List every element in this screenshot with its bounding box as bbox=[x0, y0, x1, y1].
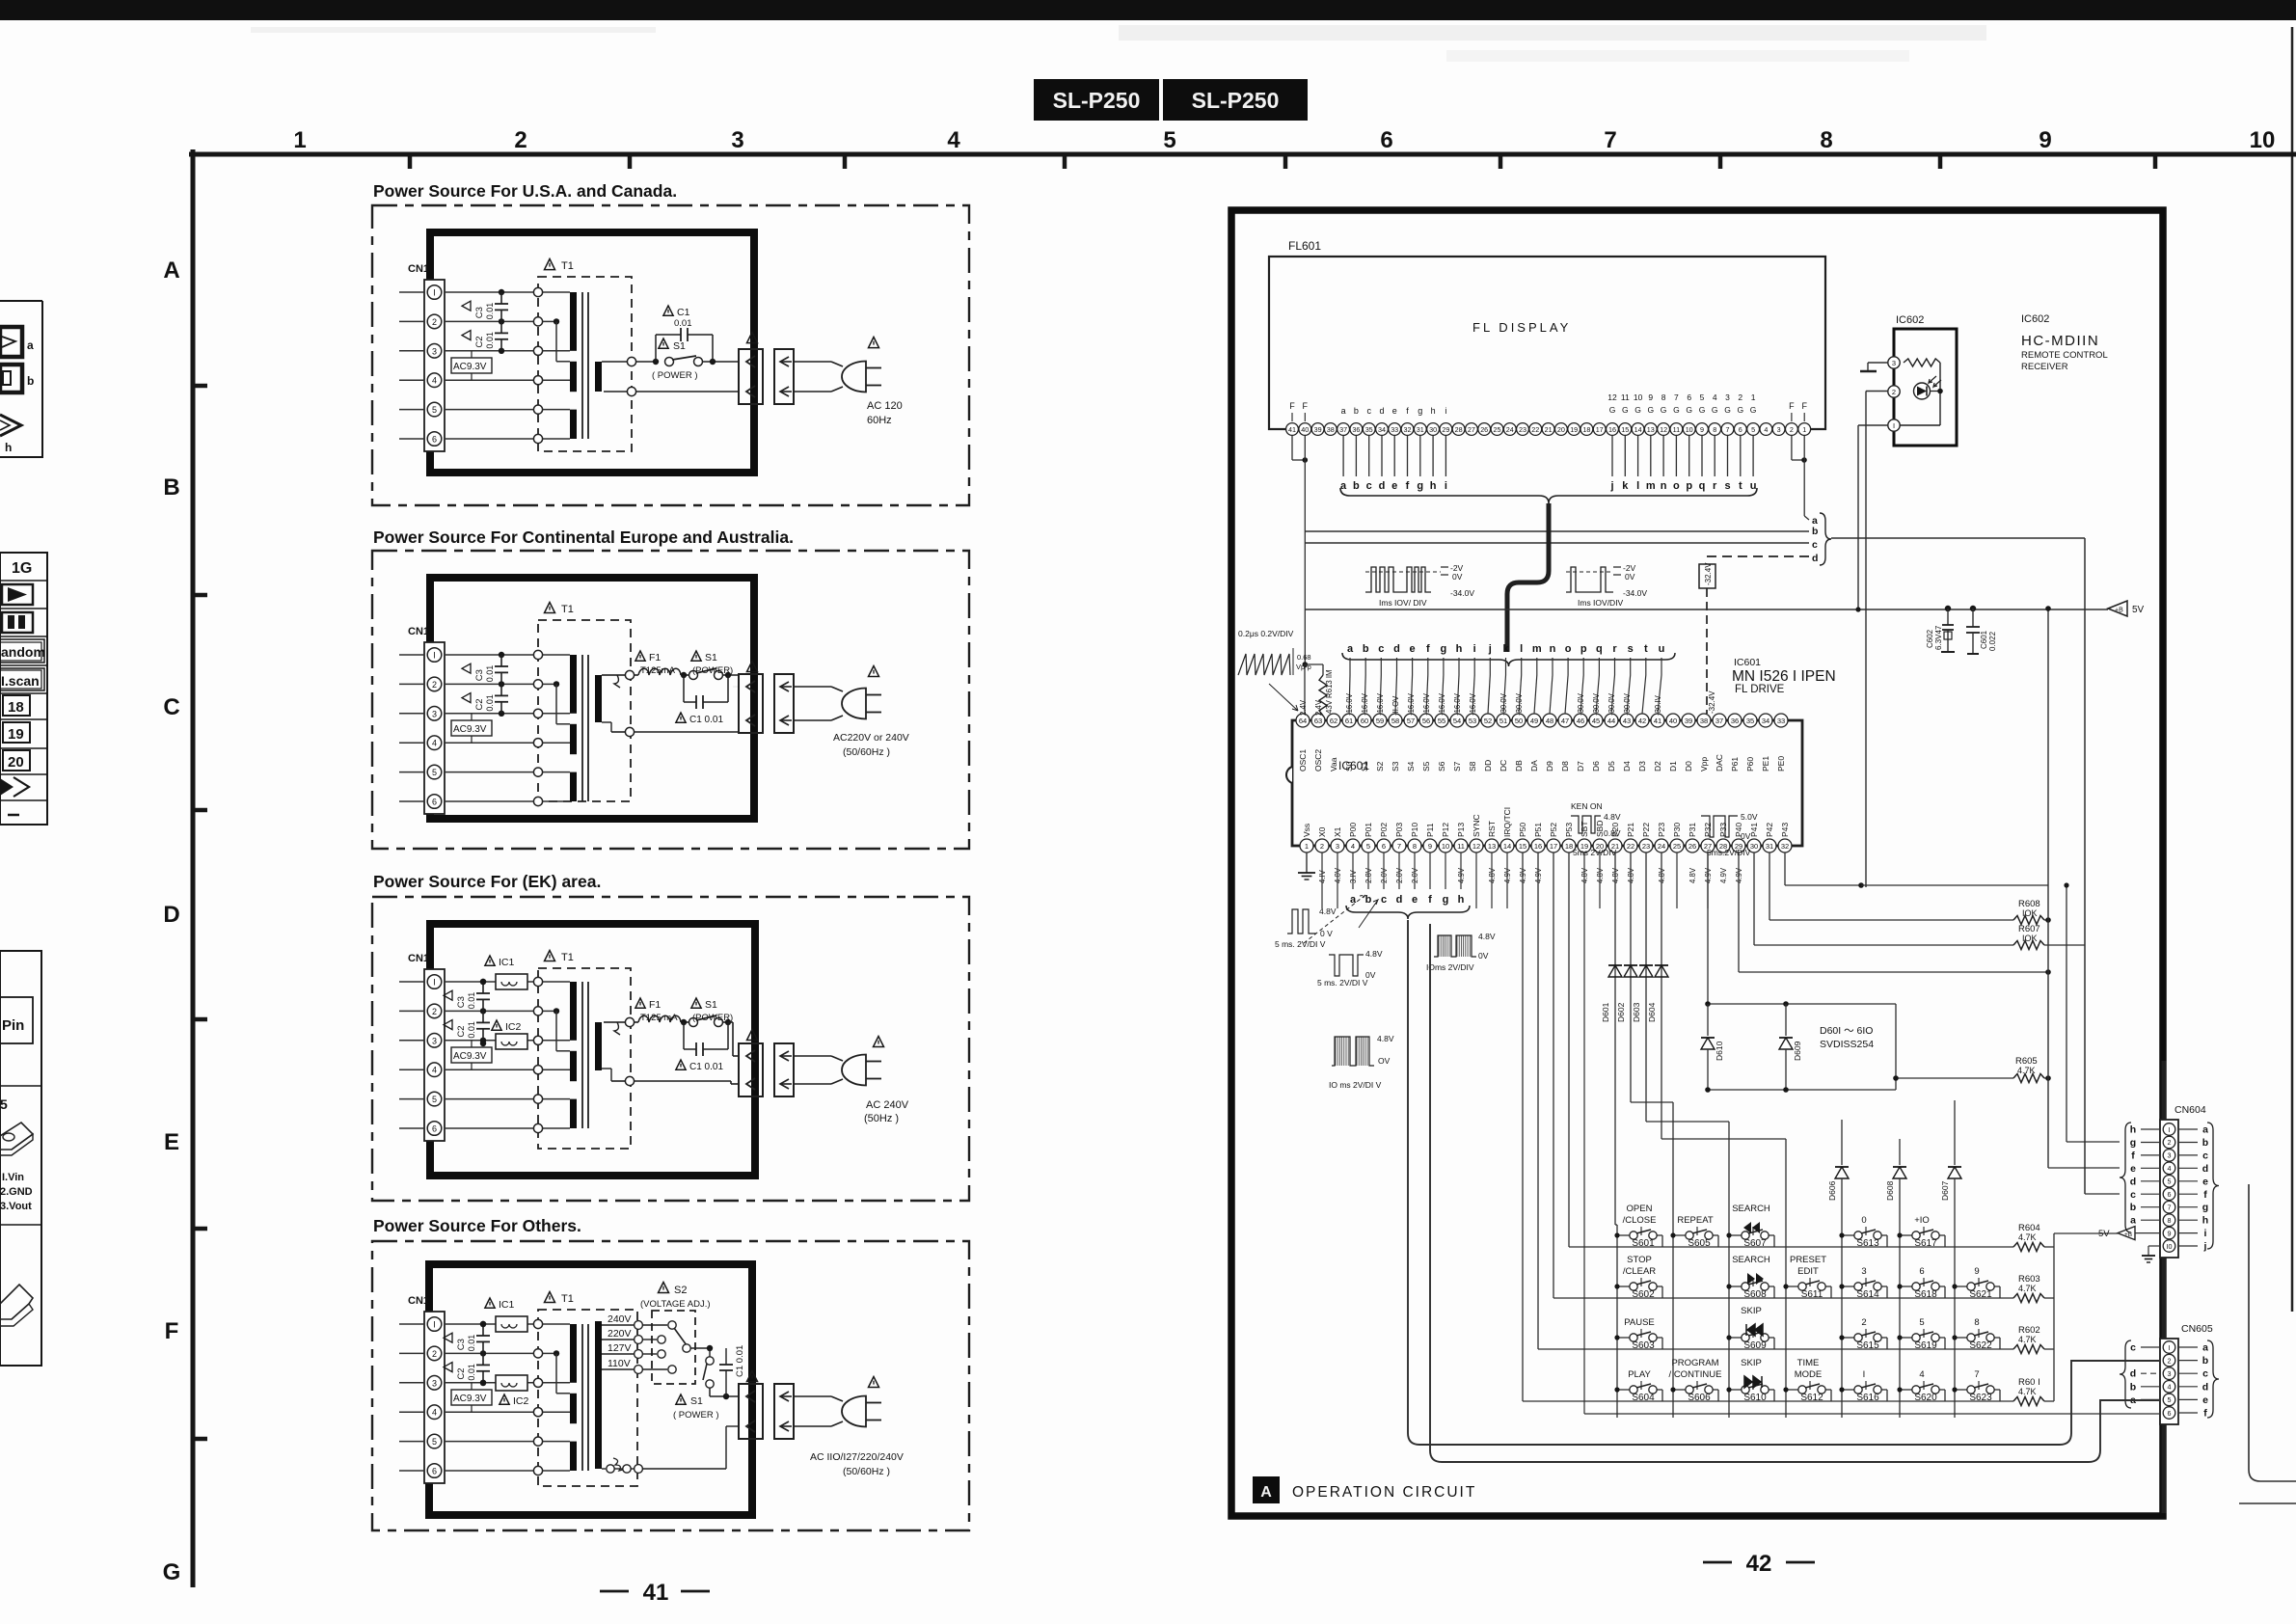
svg-text:S604: S604 bbox=[1632, 1393, 1655, 1403]
svg-text:4: 4 bbox=[1351, 842, 1355, 851]
svg-text:P11: P11 bbox=[1425, 823, 1435, 837]
power switch S1 (usa) bbox=[653, 359, 659, 365]
waveform hatched 10ms a bbox=[1426, 932, 1496, 972]
IC602 pin 3 bbox=[1888, 357, 1900, 368]
svg-text:Power Source For Continental E: Power Source For Continental Europe and … bbox=[373, 528, 794, 547]
svg-text:32: 32 bbox=[1404, 425, 1412, 434]
svg-text:S4: S4 bbox=[1406, 761, 1416, 771]
T1 label (eu) bbox=[545, 603, 555, 613]
svg-text:I: I bbox=[433, 1320, 436, 1330]
CN605 right brace bbox=[2207, 1340, 2219, 1418]
resistor R601 bbox=[2013, 1397, 2044, 1406]
svg-text:41: 41 bbox=[643, 1580, 669, 1606]
svg-text:13: 13 bbox=[1647, 425, 1655, 434]
svg-text:h: h bbox=[1456, 643, 1463, 655]
svg-text:54: 54 bbox=[1453, 717, 1461, 725]
diode D602 bbox=[1630, 853, 1632, 1102]
svg-text:4.8V: 4.8V bbox=[1377, 1034, 1394, 1043]
svg-text:Power Source For Others.: Power Source For Others. bbox=[373, 1216, 581, 1235]
waveform drive 1ms (2) bbox=[1566, 563, 1647, 608]
svg-text:e: e bbox=[1392, 406, 1397, 416]
svg-text:0.01: 0.01 bbox=[485, 694, 495, 712]
svg-text:b: b bbox=[2130, 1381, 2136, 1393]
svg-text:10: 10 bbox=[2250, 127, 2276, 153]
svg-text:0.01: 0.01 bbox=[485, 332, 495, 349]
svg-text:D602: D602 bbox=[1616, 1002, 1626, 1022]
capacitor C602 bbox=[1945, 606, 1951, 611]
secondary wires (ek) bbox=[604, 1021, 617, 1023]
svg-text:KEN ON: KEN ON bbox=[1571, 801, 1603, 811]
wire P32 to diode loop bbox=[1707, 853, 1709, 1004]
svg-text:4.8V: 4.8V bbox=[1365, 949, 1383, 959]
wires CN1 to T1 (ek) bbox=[445, 982, 533, 1128]
svg-text:46: 46 bbox=[1577, 717, 1584, 725]
IC602 resistor bbox=[1904, 359, 1940, 366]
svg-text:4.8V: 4.8V bbox=[1658, 867, 1666, 883]
svg-text:G: G bbox=[1750, 405, 1757, 415]
svg-text:S616: S616 bbox=[1856, 1393, 1879, 1403]
svg-text:S612: S612 bbox=[1800, 1393, 1823, 1403]
svg-text:Vss: Vss bbox=[1302, 824, 1311, 837]
column riser digits bbox=[1841, 1120, 1843, 1122]
FL601 anode wires a-i bbox=[1340, 435, 1447, 492]
margin key 18 bbox=[3, 695, 30, 716]
svg-text:S602: S602 bbox=[1632, 1289, 1655, 1300]
svg-text:12: 12 bbox=[1660, 425, 1667, 434]
svg-text:IOms 2V/DIV: IOms 2V/DIV bbox=[1426, 962, 1474, 972]
svg-text:18: 18 bbox=[1582, 425, 1590, 434]
svg-text:r: r bbox=[1612, 643, 1617, 655]
svg-text:OPERATION CIRCUIT: OPERATION CIRCUIT bbox=[1292, 1484, 1476, 1501]
svg-text:5: 5 bbox=[1751, 425, 1755, 434]
svg-text:P30: P30 bbox=[1672, 823, 1682, 837]
svg-text:5: 5 bbox=[1366, 842, 1370, 851]
svg-text:8: 8 bbox=[1974, 1317, 1979, 1328]
margin panel 1 frame bbox=[0, 301, 42, 457]
secondary wires (usa) bbox=[602, 361, 627, 363]
svg-text:S608: S608 bbox=[1743, 1289, 1767, 1300]
connector CN605 bbox=[2160, 1339, 2178, 1424]
svg-text:E: E bbox=[164, 1129, 179, 1155]
svg-text:39: 39 bbox=[1685, 717, 1692, 725]
margin play key bbox=[2, 584, 33, 605]
svg-text:+B: +B bbox=[2115, 608, 2123, 614]
svg-text:S620: S620 bbox=[1914, 1393, 1937, 1403]
svg-text:b: b bbox=[2202, 1355, 2208, 1367]
svg-text:D610: D610 bbox=[1715, 1041, 1724, 1061]
svg-text:SL-P250: SL-P250 bbox=[1053, 88, 1141, 113]
svg-text:4.7K: 4.7K bbox=[2018, 1335, 2037, 1344]
svg-text:C602: C602 bbox=[1926, 629, 1934, 648]
svg-text:CN1: CN1 bbox=[408, 626, 429, 637]
svg-text:c: c bbox=[1812, 539, 1818, 551]
svg-text:b: b bbox=[1363, 643, 1369, 655]
svg-text:-34.0V: -34.0V bbox=[1450, 588, 1474, 598]
margin random key bbox=[0, 639, 44, 663]
svg-text:3: 3 bbox=[1336, 842, 1339, 851]
switch S601 OPEN/CLOSE bbox=[1614, 1204, 1662, 1249]
unit thick box (ek) bbox=[430, 924, 755, 1176]
svg-text:o: o bbox=[1673, 480, 1680, 492]
svg-text:2: 2 bbox=[1892, 388, 1896, 396]
transformer T1 (others) bbox=[533, 1310, 637, 1486]
svg-text:2.0V: 2.0V bbox=[1380, 867, 1389, 883]
svg-text:C2: C2 bbox=[474, 336, 485, 347]
svg-text:D: D bbox=[163, 902, 179, 928]
svg-text:17: 17 bbox=[1596, 425, 1604, 434]
svg-text:(VOLTAGE ADJ.): (VOLTAGE ADJ.) bbox=[640, 1299, 711, 1310]
svg-text:6: 6 bbox=[2168, 1409, 2172, 1418]
svg-text:S8: S8 bbox=[1468, 761, 1477, 771]
svg-text:59: 59 bbox=[1376, 717, 1384, 725]
svg-text:32: 32 bbox=[1781, 842, 1789, 851]
svg-text:4.8V: 4.8V bbox=[1488, 867, 1497, 883]
svg-text:5: 5 bbox=[0, 1096, 8, 1112]
svg-text:AC9.3V: AC9.3V bbox=[453, 1394, 487, 1404]
svg-text:b: b bbox=[27, 374, 34, 388]
svg-text:T1: T1 bbox=[561, 1293, 574, 1305]
svg-text:PE1: PE1 bbox=[1761, 756, 1770, 771]
wires to plug (others) bbox=[794, 1395, 831, 1397]
FL601 filament wires left bbox=[1291, 435, 1293, 460]
IC601 bottom pin row 1-32 bbox=[1300, 839, 1792, 853]
fuse IC1 (ek) bbox=[480, 979, 486, 985]
wire P40 long bbox=[1738, 853, 1740, 972]
svg-text:30: 30 bbox=[1429, 425, 1437, 434]
svg-text:G: G bbox=[1737, 405, 1743, 415]
svg-text:D60I 〜 6IO: D60I 〜 6IO bbox=[1820, 1025, 1873, 1037]
svg-text:4: 4 bbox=[1713, 392, 1717, 402]
svg-text:23: 23 bbox=[1642, 842, 1650, 851]
svg-text:5: 5 bbox=[2168, 1395, 2172, 1404]
svg-text:35: 35 bbox=[1746, 717, 1754, 725]
svg-text:s: s bbox=[1628, 643, 1634, 655]
svg-text:37: 37 bbox=[1715, 717, 1723, 725]
fuse F1 (eu) bbox=[638, 668, 681, 675]
svg-text:d: d bbox=[1396, 894, 1403, 906]
CN605 feed wires bbox=[2084, 538, 2086, 1194]
svg-text:i: i bbox=[1445, 406, 1446, 416]
svg-text:REPEAT: REPEAT bbox=[1677, 1215, 1714, 1226]
svg-text:55: 55 bbox=[1438, 717, 1445, 725]
svg-text:4.0V: 4.0V bbox=[1334, 867, 1342, 883]
svg-text:d: d bbox=[1379, 480, 1386, 492]
svg-text:4: 4 bbox=[432, 1408, 437, 1418]
svg-text:c: c bbox=[2202, 1368, 2208, 1380]
svg-text:43: 43 bbox=[1623, 717, 1631, 725]
svg-text:h: h bbox=[2202, 1215, 2208, 1227]
svg-text:S609: S609 bbox=[1743, 1340, 1767, 1351]
svg-text:6: 6 bbox=[432, 798, 437, 807]
margin icon play a bbox=[0, 327, 22, 357]
wire P43 to R608 rail bbox=[1784, 853, 1786, 885]
svg-text:4.8V: 4.8V bbox=[1688, 867, 1697, 883]
IC602 wires to bus bbox=[1866, 391, 1888, 392]
svg-text:33: 33 bbox=[1777, 717, 1785, 725]
resistor R605 bbox=[1896, 1077, 2013, 1079]
svg-text:41: 41 bbox=[1654, 717, 1661, 725]
svg-text:C3: C3 bbox=[474, 669, 485, 681]
svg-text:G: G bbox=[1712, 405, 1718, 415]
svg-text:AC9.3V: AC9.3V bbox=[453, 724, 487, 735]
svg-text:42: 42 bbox=[1746, 1551, 1772, 1577]
svg-text:18: 18 bbox=[1565, 842, 1573, 851]
svg-text:+B: +B bbox=[2124, 1232, 2132, 1238]
svg-text:1G: 1G bbox=[12, 560, 32, 577]
svg-text:(50/60Hz ): (50/60Hz ) bbox=[843, 746, 890, 758]
column risers bbox=[1631, 1101, 1673, 1103]
svg-text:9: 9 bbox=[1700, 425, 1704, 434]
svg-text:AC 240V: AC 240V bbox=[866, 1099, 909, 1111]
display data bus bbox=[1507, 503, 1549, 652]
svg-text:SYNC: SYNC bbox=[1472, 814, 1481, 837]
svg-text:a: a bbox=[1340, 480, 1347, 492]
svg-text:3: 3 bbox=[432, 709, 437, 718]
svg-text:c: c bbox=[2130, 1342, 2136, 1354]
svg-text:34: 34 bbox=[1378, 425, 1386, 434]
svg-text:44: 44 bbox=[1607, 717, 1615, 725]
svg-text:g: g bbox=[1417, 480, 1423, 492]
CN1 lead stubs (usa) bbox=[399, 292, 424, 439]
svg-text:andom: andom bbox=[1, 644, 45, 660]
svg-text:30: 30 bbox=[1750, 842, 1758, 851]
grid ruler horizontal bbox=[189, 152, 2296, 157]
svg-text:1: 1 bbox=[1305, 842, 1309, 851]
wires CN1 to T1 (usa) bbox=[445, 292, 533, 439]
svg-text:4.7K: 4.7K bbox=[2018, 1232, 2037, 1242]
svg-text:S615: S615 bbox=[1856, 1340, 1879, 1351]
svg-text:21: 21 bbox=[1545, 425, 1553, 434]
svg-text:IC601: IC601 bbox=[1734, 657, 1761, 668]
svg-text:SL-P250: SL-P250 bbox=[1192, 88, 1280, 113]
section outer dashed box (eu) bbox=[372, 551, 969, 849]
svg-text:P61: P61 bbox=[1730, 757, 1740, 771]
switch S602 STOP/CLEAR bbox=[1614, 1255, 1662, 1300]
svg-text:-30.IV: -30.IV bbox=[1654, 694, 1662, 716]
CN605 left labels bbox=[2130, 1342, 2160, 1406]
svg-text:r: r bbox=[1713, 480, 1717, 492]
section outer dashed box (others) bbox=[372, 1241, 969, 1530]
connector CN1 (ek) bbox=[424, 969, 445, 1141]
model badge SL-P250 right bbox=[1163, 79, 1308, 121]
margin panel 2 frame bbox=[0, 553, 47, 825]
switch S623 7 bbox=[1952, 1369, 2000, 1403]
svg-text:b: b bbox=[2130, 1202, 2136, 1213]
diode D608 bbox=[1899, 1139, 1901, 1165]
svg-text:T1: T1 bbox=[561, 604, 574, 615]
svg-text:IO ms 2V/DI V: IO ms 2V/DI V bbox=[1329, 1080, 1382, 1090]
IC602 pin 2 bbox=[1888, 386, 1900, 397]
svg-text:c: c bbox=[1378, 643, 1384, 655]
svg-text:C: C bbox=[163, 694, 179, 720]
svg-text:SBT: SBT bbox=[1580, 821, 1589, 837]
svg-text:4.7K: 4.7K bbox=[2017, 1066, 2036, 1075]
capacitor C3 (ek) bbox=[444, 979, 490, 1015]
resistor R604 bbox=[2013, 1243, 2044, 1252]
margin package icon 2 bbox=[0, 1285, 33, 1319]
svg-text:c: c bbox=[2130, 1189, 2136, 1201]
operation circuit border box bbox=[1231, 210, 2163, 1516]
svg-text:2: 2 bbox=[432, 680, 437, 690]
svg-text:S601: S601 bbox=[1632, 1238, 1655, 1249]
svg-text:I: I bbox=[1863, 1369, 1866, 1380]
svg-text:OSC1: OSC1 bbox=[1298, 749, 1308, 771]
svg-text:127V: 127V bbox=[608, 1342, 632, 1354]
svg-text:MODE: MODE bbox=[1795, 1369, 1823, 1380]
row scan wires from IC601 bbox=[1568, 853, 1570, 1247]
top black scan bar bbox=[0, 0, 2296, 20]
svg-text:g: g bbox=[2130, 1137, 2136, 1149]
svg-text:I: I bbox=[433, 288, 436, 298]
section outer dashed box (usa) bbox=[372, 205, 969, 505]
switch S622 8 bbox=[1952, 1317, 2000, 1351]
svg-text:Vpp: Vpp bbox=[1699, 757, 1709, 771]
svg-text:2: 2 bbox=[432, 1007, 437, 1016]
svg-text:6: 6 bbox=[1739, 425, 1742, 434]
svg-text:+IO: +IO bbox=[1914, 1215, 1930, 1226]
svg-text:PROGRAM: PROGRAM bbox=[1671, 1358, 1718, 1368]
svg-text:31: 31 bbox=[1417, 425, 1424, 434]
svg-text:m: m bbox=[1532, 643, 1542, 655]
AC9.3V label box (ek) bbox=[451, 1041, 492, 1069]
svg-text:3: 3 bbox=[1861, 1266, 1866, 1277]
capacitor C1 (eu) bbox=[683, 675, 685, 702]
svg-text:e: e bbox=[1410, 643, 1416, 655]
margin pause key bbox=[2, 612, 33, 633]
svg-text:l: l bbox=[1520, 643, 1523, 655]
svg-text:DC: DC bbox=[1499, 760, 1508, 771]
margin panel 3 frame bbox=[0, 951, 41, 1366]
svg-text:RECEIVER: RECEIVER bbox=[2021, 362, 2068, 372]
svg-text:f: f bbox=[1428, 894, 1432, 906]
svg-text:(50/60Hz ): (50/60Hz ) bbox=[843, 1466, 890, 1477]
svg-text:60Hz: 60Hz bbox=[867, 415, 892, 426]
chassis connector (usa) bbox=[774, 349, 794, 404]
switch S620 4 bbox=[1897, 1369, 1945, 1403]
diode network D609 D610 bbox=[1701, 1001, 1899, 1093]
svg-text:D8: D8 bbox=[1560, 761, 1570, 771]
AC plug (usa) bbox=[842, 362, 866, 392]
svg-text:Ims IOV/DIV: Ims IOV/DIV bbox=[1578, 598, 1624, 608]
svg-text:25: 25 bbox=[1494, 425, 1501, 434]
svg-text:3: 3 bbox=[1892, 359, 1896, 367]
svg-text:IRQ/TCI: IRQ/TCI bbox=[1502, 807, 1512, 837]
switch S610 SKIP fwd bbox=[1726, 1358, 1774, 1403]
svg-text:1: 1 bbox=[1802, 425, 1806, 434]
svg-text:I: I bbox=[2169, 1343, 2171, 1352]
wires CN1 to T1 (eu) bbox=[445, 655, 533, 801]
svg-text:S622: S622 bbox=[1969, 1340, 1992, 1351]
svg-text:24: 24 bbox=[1658, 842, 1665, 851]
switch S614 3 bbox=[1839, 1266, 1887, 1300]
svg-text:5V: 5V bbox=[2098, 1229, 2110, 1239]
svg-text:D601: D601 bbox=[1601, 1002, 1610, 1022]
svg-text:D2: D2 bbox=[1653, 761, 1662, 771]
svg-text:a: a bbox=[2130, 1215, 2136, 1227]
svg-text:CN605: CN605 bbox=[2181, 1323, 2213, 1335]
svg-text:16: 16 bbox=[1534, 842, 1542, 851]
svg-text:P52: P52 bbox=[1549, 823, 1558, 837]
chassis connector (eu) bbox=[774, 674, 794, 733]
connector CN604 bbox=[2160, 1120, 2178, 1258]
svg-text:e: e bbox=[2130, 1163, 2136, 1175]
svg-text:7: 7 bbox=[1604, 127, 1616, 153]
wires to plug (usa) bbox=[794, 361, 831, 363]
svg-text:240V: 240V bbox=[608, 1313, 632, 1325]
svg-text:S605: S605 bbox=[1688, 1238, 1711, 1249]
svg-text:3: 3 bbox=[432, 1036, 437, 1045]
svg-text:4.8V: 4.8V bbox=[1627, 867, 1635, 883]
voltage tap labels (others) bbox=[602, 1313, 642, 1373]
AC plug (ek) bbox=[842, 1055, 866, 1086]
key matrix row lines bbox=[1569, 1246, 2013, 1248]
svg-text:FL DISPLAY: FL DISPLAY bbox=[1472, 320, 1571, 335]
svg-text:4.9V: 4.9V bbox=[1534, 867, 1543, 883]
svg-text:Power Source For (EK) area.: Power Source For (EK) area. bbox=[373, 872, 601, 891]
margin dash bbox=[8, 814, 19, 817]
svg-text:P21: P21 bbox=[1626, 823, 1635, 837]
operation circuit caption bbox=[1253, 1476, 1280, 1503]
right scan edge line bbox=[2291, 27, 2294, 1312]
svg-text:0V: 0V bbox=[1478, 951, 1489, 961]
AC plug (others) bbox=[842, 1396, 866, 1427]
svg-text:19: 19 bbox=[1570, 425, 1578, 434]
svg-text:41: 41 bbox=[1288, 425, 1296, 434]
svg-text:f: f bbox=[1426, 643, 1430, 655]
svg-text:P13: P13 bbox=[1456, 823, 1466, 837]
fuse F1 (ek) bbox=[638, 1015, 681, 1022]
svg-text:G: G bbox=[1609, 405, 1616, 415]
svg-text:0.01: 0.01 bbox=[485, 665, 495, 683]
waveform P1 5ms bbox=[1317, 949, 1383, 988]
svg-text:DAC: DAC bbox=[1715, 754, 1724, 771]
svg-text:5: 5 bbox=[432, 1437, 437, 1447]
waveform 5.0V bbox=[1701, 812, 1758, 857]
svg-text:T125mA: T125mA bbox=[640, 665, 676, 676]
svg-text:P23: P23 bbox=[1657, 823, 1666, 837]
svg-text:2: 2 bbox=[1861, 1317, 1866, 1328]
svg-text:Vaa: Vaa bbox=[1329, 757, 1338, 771]
svg-text:12: 12 bbox=[1607, 392, 1617, 402]
svg-text:23: 23 bbox=[1519, 425, 1526, 434]
svg-text:IC602: IC602 bbox=[1896, 314, 1924, 326]
power switch S1 (eu) bbox=[689, 671, 698, 680]
secondary bottom wire (ek) bbox=[602, 1068, 611, 1069]
switch S609 SKIP back bbox=[1726, 1306, 1774, 1351]
svg-text:5ms.2V/DIV: 5ms.2V/DIV bbox=[1707, 848, 1751, 857]
svg-text:0V: 0V bbox=[1452, 572, 1463, 582]
svg-text:6.3V47: 6.3V47 bbox=[1934, 625, 1943, 650]
FL601 segment letters a-i top bbox=[1341, 406, 1447, 416]
svg-text:d: d bbox=[1379, 406, 1384, 416]
svg-text:D606: D606 bbox=[1827, 1180, 1837, 1201]
svg-text:b: b bbox=[1354, 406, 1359, 416]
CN604 left brace bbox=[2120, 1123, 2131, 1232]
svg-text:n: n bbox=[1550, 643, 1556, 655]
svg-text:D4: D4 bbox=[1622, 761, 1632, 771]
svg-text:4.8V: 4.8V bbox=[1604, 812, 1621, 822]
svg-text:20: 20 bbox=[1557, 425, 1565, 434]
output connector (usa) bbox=[739, 349, 763, 404]
svg-text:/CLOSE: /CLOSE bbox=[1623, 1215, 1657, 1226]
svg-text:e: e bbox=[1391, 480, 1397, 492]
svg-text:S618: S618 bbox=[1914, 1289, 1937, 1300]
svg-text:27: 27 bbox=[1468, 425, 1475, 434]
svg-text:P10: P10 bbox=[1410, 823, 1419, 837]
svg-text:Ims IOV/ DIV: Ims IOV/ DIV bbox=[1379, 598, 1427, 608]
svg-text:18: 18 bbox=[8, 699, 24, 716]
svg-text:0V: 0V bbox=[1741, 831, 1751, 841]
